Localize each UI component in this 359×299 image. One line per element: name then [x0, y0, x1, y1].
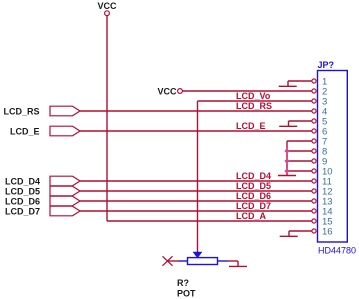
- svg-text:LCD_D7: LCD_D7: [5, 206, 40, 216]
- svg-text:LCD_Vo: LCD_Vo: [236, 91, 271, 101]
- svg-text:LCD_D6: LCD_D6: [236, 191, 271, 201]
- svg-text:LCD_D7: LCD_D7: [236, 201, 271, 211]
- svg-text:VCC: VCC: [157, 86, 177, 96]
- svg-text:LCD_D5: LCD_D5: [5, 186, 40, 196]
- svg-text:LCD_D4: LCD_D4: [236, 171, 271, 181]
- svg-text:HD44780: HD44780: [318, 246, 356, 256]
- svg-text:LCD_E: LCD_E: [10, 126, 40, 136]
- svg-text:JP?: JP?: [318, 60, 335, 70]
- svg-text:LCD_RS: LCD_RS: [236, 101, 272, 111]
- svg-text:VCC: VCC: [97, 1, 117, 11]
- svg-text:LCD_RS: LCD_RS: [3, 106, 39, 116]
- svg-text:LCD_E: LCD_E: [236, 121, 266, 131]
- svg-text:POT: POT: [177, 289, 196, 299]
- svg-text:16: 16: [322, 227, 333, 238]
- svg-text:LCD_A: LCD_A: [236, 211, 267, 221]
- svg-text:LCD_D5: LCD_D5: [236, 181, 271, 191]
- svg-text:R?: R?: [177, 278, 189, 288]
- svg-text:LCD_D4: LCD_D4: [5, 176, 40, 186]
- svg-text:LCD_D6: LCD_D6: [5, 196, 40, 206]
